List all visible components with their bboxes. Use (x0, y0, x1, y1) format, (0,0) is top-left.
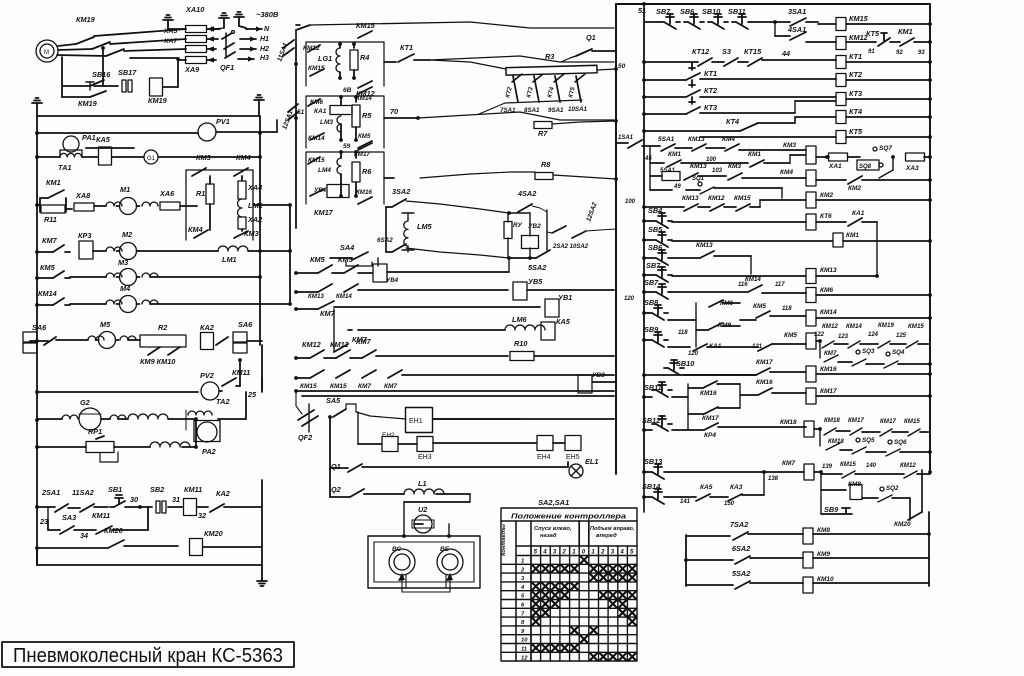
contact KM7 c (362, 350, 376, 358)
svg-text:КТ6: КТ6 (820, 213, 832, 220)
ground right bus (258, 100, 260, 104)
branch KM9 (695, 320, 697, 347)
svg-text:КМ4: КМ4 (236, 153, 251, 162)
rung 6SA2 KM9 (686, 559, 733, 561)
right bus lower (929, 470, 931, 474)
svg-text:КМ16: КМ16 (820, 366, 837, 373)
motor M2 (93, 250, 106, 252)
svg-text:125: 125 (896, 333, 907, 339)
svg-text:SВ7: SВ7 (646, 261, 661, 270)
contact KA2 r (197, 506, 208, 508)
svg-text:КМ3: КМ3 (196, 153, 211, 162)
wire rung1 (752, 21, 775, 23)
svg-text:8SА1: 8SА1 (524, 107, 540, 114)
svg-text:SQ2: SQ2 (886, 485, 899, 492)
svg-text:QF1: QF1 (220, 63, 234, 72)
contact KM16b (758, 388, 772, 395)
svg-text:РА1: РА1 (82, 133, 96, 142)
wire u2 down (403, 502, 405, 536)
rung M2 (35, 250, 39, 254)
svg-text:4: 4 (619, 550, 624, 556)
voltmeter PV1 (198, 123, 216, 141)
contact KM7 (48, 251, 53, 253)
circle BE (437, 549, 463, 575)
svg-text:LМ5: LМ5 (417, 222, 433, 231)
rung SB12 KP4 (644, 429, 652, 431)
contact KM4 bottom (194, 230, 208, 238)
coil KT6 (806, 214, 816, 230)
svg-text:КМ11: КМ11 (92, 511, 110, 520)
svg-text:32: 32 (198, 511, 206, 520)
switch SQ7 (848, 156, 860, 158)
svg-text:КМ3: КМ3 (244, 229, 259, 238)
svg-text:КМ15: КМ15 (904, 418, 920, 425)
pushbutton SB2 nc (156, 501, 160, 513)
coil KT1 (836, 56, 846, 69)
rung KM12 row (296, 357, 310, 359)
svg-text:SВ4: SВ4 (648, 206, 662, 215)
svg-text:SВ6: SВ6 (648, 243, 663, 252)
svg-text:ЕН3: ЕН3 (418, 454, 432, 461)
svg-text:КМ13: КМ13 (696, 242, 713, 249)
svg-text:Н1: Н1 (260, 36, 269, 43)
BC arrow (398, 573, 405, 581)
svg-text:КМ2: КМ2 (848, 185, 861, 192)
resistor R6 c3 (355, 152, 357, 158)
svg-text:КМ18: КМ18 (780, 419, 797, 426)
rung PA1-KA5-G1 (35, 155, 39, 159)
svg-text:92: 92 (896, 50, 903, 56)
contact KM5 a (318, 265, 332, 273)
inductor LM3 c2 (337, 116, 341, 132)
contacts KM9 KM10 under R2 (148, 347, 160, 355)
svg-text:SQ6: SQ6 (894, 439, 907, 446)
contact KM15 c1 (310, 69, 324, 76)
svg-text:SВ5: SВ5 (648, 225, 663, 234)
top distribution wire (310, 22, 614, 28)
svg-text:Положение контроллера: Положение контроллера (511, 512, 626, 521)
resistor R5 c2 (355, 96, 357, 102)
bus 290 (289, 205, 291, 304)
wire sa4 to cluster (377, 258, 379, 266)
svg-text:M: M (44, 50, 49, 56)
svg-text:Q1: Q1 (586, 33, 596, 42)
rung G2 (35, 418, 39, 422)
svg-text:PV2: PV2 (200, 371, 214, 380)
wire PV2 right riser (236, 385, 240, 387)
contact 4SA1 (774, 22, 776, 36)
rung4 KT2 contact (644, 96, 686, 98)
wire to YB5 (358, 289, 508, 291)
contact 2SA1 (55, 504, 68, 512)
resistor R1 vertical (209, 176, 211, 184)
rung SB7b KM13coil (644, 274, 652, 276)
svg-text:5SА2: 5SА2 (528, 263, 546, 272)
svg-text:R2: R2 (158, 323, 167, 332)
svg-text:КМ13: КМ13 (308, 293, 324, 300)
svg-text:КМ1: КМ1 (846, 232, 859, 239)
svg-text:КМ20: КМ20 (894, 521, 911, 528)
svg-text:ХА4: ХА4 (247, 183, 262, 192)
svg-text:КМ16: КМ16 (356, 189, 372, 196)
svg-text:КТ12: КТ12 (692, 47, 709, 56)
contact KM20 r (908, 512, 922, 520)
transformer TA1 (60, 153, 82, 157)
wire c3 right (384, 177, 394, 179)
svg-text:R10: R10 (514, 339, 527, 348)
svg-text:SQ3: SQ3 (862, 348, 875, 355)
svg-text:45: 45 (644, 156, 652, 162)
wire TA2 right (218, 418, 246, 420)
svg-text:КМ15: КМ15 (734, 195, 751, 202)
coil KM14 (806, 310, 816, 326)
rung6 KT4 contact (644, 130, 740, 132)
svg-text:SВ6: SВ6 (680, 7, 695, 16)
coil YB4 c3 (327, 185, 349, 198)
svg-text:ХА10: ХА10 (185, 5, 204, 14)
contact 3SA2 (392, 199, 406, 207)
coil YB3 (578, 375, 592, 393)
svg-text:КТ4: КТ4 (849, 107, 862, 116)
wire to TA2 (168, 418, 196, 420)
svg-text:КА5: КА5 (700, 484, 713, 491)
wire SA4 (330, 257, 352, 259)
coil KM4 (806, 170, 816, 186)
svg-text:11: 11 (521, 647, 527, 653)
svg-text:LМ6: LМ6 (512, 315, 528, 324)
svg-text:КМ11: КМ11 (184, 485, 202, 494)
rung M3 (35, 276, 39, 280)
rung1 SB7 SB6 SB10 SB11 (644, 21, 660, 23)
resistor R10 (510, 352, 534, 361)
branch KM6 up (695, 303, 697, 320)
svg-text:12: 12 (521, 655, 528, 661)
motor M4 (70, 303, 106, 305)
svg-text:SВ7: SВ7 (644, 278, 659, 287)
svg-text:4: 4 (542, 550, 547, 556)
svg-text:КМ13: КМ13 (688, 136, 705, 143)
svg-text:КМ17: КМ17 (314, 208, 334, 217)
RP1 tap (100, 452, 118, 462)
svg-text:КМ10: КМ10 (817, 576, 834, 583)
wire 70 to right (418, 112, 614, 120)
contact KM19 phase3 (106, 49, 124, 56)
svg-text:R4: R4 (360, 53, 369, 62)
arrow N (246, 28, 262, 30)
svg-text:SВ9: SВ9 (824, 505, 839, 514)
svg-text:SВ10: SВ10 (676, 359, 694, 368)
contact 11SA2 (80, 504, 94, 512)
wire top resistor to ground (168, 28, 186, 30)
vertical ka1 drop (876, 240, 878, 277)
ammeter PA1 (63, 136, 79, 152)
contact KT1 (384, 61, 396, 63)
svg-text:КТ15: КТ15 (744, 47, 762, 56)
svg-text:КМ15: КМ15 (300, 383, 317, 390)
svg-text:КА2: КА2 (200, 323, 214, 332)
pushbutton SB1 (94, 506, 108, 508)
ammeter PA2 (194, 421, 220, 442)
svg-text:91: 91 (868, 49, 875, 55)
svg-text:ХА8: ХА8 (75, 191, 91, 200)
resistor XA6 (142, 202, 158, 206)
right bus vertical of left ladder (259, 116, 261, 345)
rung M1 (35, 203, 39, 207)
svg-text:ЕН5: ЕН5 (566, 454, 580, 461)
svg-text:140: 140 (866, 463, 877, 469)
arrow H2 (240, 48, 256, 50)
svg-text:КТ3: КТ3 (704, 103, 717, 112)
contact Q1 top (576, 49, 592, 56)
svg-text:УВ5: УВ5 (528, 277, 543, 286)
svg-text:ХА2: ХА2 (247, 215, 262, 224)
svg-text:КМ5: КМ5 (310, 255, 326, 264)
svg-text:2: 2 (562, 550, 567, 556)
svg-text:G2: G2 (80, 398, 90, 407)
contact KM13 m (318, 284, 332, 292)
svg-text:КМ12: КМ12 (302, 340, 321, 349)
svg-text:назад: назад (540, 533, 557, 539)
svg-text:КА3: КА3 (730, 484, 743, 491)
resistor XA7 (186, 46, 207, 53)
rung KM13 KM14 (296, 291, 318, 293)
svg-text:М2: М2 (122, 230, 132, 239)
resistor XR1 (816, 156, 829, 158)
svg-text:2SА1: 2SА1 (41, 488, 60, 497)
svg-text:КМ5: КМ5 (784, 332, 797, 339)
rung SB11 (644, 396, 652, 398)
inductor LM1 vertical (238, 199, 243, 217)
svg-text:КМ12: КМ12 (303, 45, 320, 52)
rung SB5 KM1box (644, 239, 652, 241)
wire KM15 row right (402, 374, 614, 376)
contact KM5 (48, 277, 53, 279)
wire KM7 right (334, 306, 540, 308)
wire EH3 right (433, 442, 536, 444)
node 30 (138, 505, 142, 509)
dots u2 (402, 534, 406, 538)
wire 3-phase from motor (58, 44, 76, 46)
svg-text:PV1: PV1 (216, 117, 230, 126)
svg-text:КМ12: КМ12 (900, 462, 916, 469)
branch 49 SQ1 (649, 176, 651, 190)
inductor L1 (364, 493, 404, 495)
svg-text:КМ16: КМ16 (756, 379, 773, 386)
svg-text:R7: R7 (538, 129, 548, 138)
rung SB7c 116 KM14 117 (644, 291, 652, 293)
box SQ8 (857, 160, 879, 170)
coil KA5 mid (541, 322, 555, 340)
coil KT4 (836, 111, 846, 124)
svg-text:КА5: КА5 (96, 135, 111, 144)
svg-text:вперед: вперед (596, 533, 617, 539)
svg-text:9SА1: 9SА1 (548, 107, 564, 114)
motor M (main generator drive) (36, 40, 58, 62)
svg-text:31: 31 (172, 495, 180, 504)
svg-text:50: 50 (618, 63, 626, 70)
rung RP1 (35, 445, 39, 449)
svg-text:ЕL1: ЕL1 (585, 457, 598, 466)
svg-text:SВ12: SВ12 (642, 416, 660, 425)
svg-text:S3: S3 (722, 47, 731, 56)
svg-text:КМ4: КМ4 (780, 169, 793, 176)
title box (2, 642, 294, 667)
relay KA2 (201, 333, 214, 350)
wire YB4 right (387, 271, 509, 273)
coil KM9b (803, 552, 813, 568)
svg-text:М1: М1 (120, 185, 130, 194)
svg-text:КТ5: КТ5 (866, 29, 880, 38)
coil YB1 (545, 299, 559, 317)
contact 2SA2 10SA2 (552, 226, 566, 233)
svg-text:КМ17: КМ17 (848, 417, 864, 424)
resistor R3 (506, 65, 597, 75)
rung SB10 KM17 KM16coil (644, 374, 664, 376)
generator G2 (62, 415, 78, 419)
voltmeter PV2 (201, 382, 219, 400)
ground left bus (36, 103, 38, 107)
svg-text:R1: R1 (196, 189, 205, 198)
wire c2 right 70 (384, 117, 418, 119)
slanted contacts KT2-KT5 group (513, 76, 518, 102)
svg-text:Q1: Q1 (331, 462, 341, 471)
inductor RP1 right (114, 446, 150, 448)
contact KM20 (108, 540, 124, 548)
svg-text:93: 93 (918, 50, 925, 56)
svg-text:КМ1: КМ1 (748, 151, 761, 158)
node M1 right (258, 203, 262, 207)
svg-text:6SА2: 6SА2 (377, 237, 393, 244)
rung KM13 KM12 KM15 (644, 206, 684, 208)
rung LM6 KA5 (348, 329, 352, 331)
wire R8 (420, 172, 535, 178)
subchain KM7 SQ3 SQ4 (819, 341, 821, 358)
cluster1 frame (306, 42, 384, 86)
svg-text:КМ11: КМ11 (232, 368, 250, 377)
svg-text:Спуск влево,: Спуск влево, (534, 526, 572, 532)
rung M4 (35, 303, 39, 307)
coil YB5 (513, 282, 527, 300)
motor M3 (70, 276, 106, 278)
svg-text:КТ1: КТ1 (400, 43, 413, 52)
svg-text:34: 34 (80, 531, 88, 540)
svg-text:М3: М3 (118, 258, 128, 267)
svg-text:10SА1: 10SА1 (568, 106, 587, 113)
svg-text:R8: R8 (541, 160, 551, 169)
svg-text:КМ5: КМ5 (753, 303, 766, 310)
svg-text:59: 59 (343, 143, 351, 150)
svg-text:120: 120 (688, 351, 699, 357)
table data rows (501, 563, 637, 565)
arrow H3 (238, 58, 254, 60)
bottom rungs 7SA2 KM8 (685, 535, 687, 586)
svg-text:КА1: КА1 (314, 108, 327, 115)
relay KA5 box (82, 156, 98, 158)
wire Q1 right (362, 466, 568, 468)
node c1 (338, 42, 342, 46)
svg-text:КА1: КА1 (852, 210, 865, 217)
svg-text:ХА9: ХА9 (184, 65, 200, 74)
right bus lower part (261, 345, 263, 390)
resistor XA3 (906, 153, 925, 161)
cluster2 frame (306, 96, 384, 148)
svg-text:Н3: Н3 (260, 55, 269, 62)
svg-text:RР1: RР1 (88, 427, 102, 436)
coil KM2 (806, 192, 816, 208)
svg-text:7SА2: 7SА2 (730, 520, 748, 529)
inner bus 51 (643, 14, 645, 300)
rung7 feed 1SA1 (616, 142, 628, 144)
branch KM17 drop (687, 397, 689, 430)
EH3 heater (398, 443, 417, 445)
svg-text:ВС: ВС (392, 546, 402, 553)
svg-text:L1: L1 (418, 479, 427, 488)
svg-text:~380В: ~380В (256, 10, 279, 19)
left bus vertical (36, 116, 38, 565)
contact KM4 top (234, 168, 248, 176)
svg-text:44: 44 (781, 49, 790, 58)
svg-text:ВЕ: ВЕ (440, 546, 450, 553)
svg-text:КМ7: КМ7 (824, 350, 837, 357)
contact KM16 bot c3 (358, 197, 372, 204)
resistor R7 (534, 122, 552, 129)
main control bus upper (37, 115, 260, 117)
svg-text:КМ17: КМ17 (820, 388, 837, 395)
rung SB13 KM7coil (644, 471, 648, 473)
svg-text:30: 30 (130, 495, 138, 504)
resistor R11 (41, 205, 65, 213)
inductor after G2 (101, 418, 110, 420)
contact KM5 118 (756, 311, 770, 318)
wire 6SA2 bottom (406, 248, 509, 258)
lamp EL1 (569, 464, 583, 478)
pushbutton SB17 (104, 85, 118, 87)
svg-text:КМ9 КМ10: КМ9 КМ10 (140, 357, 175, 366)
contact KM5 bot c2 (358, 141, 372, 148)
branch SA3 (47, 507, 49, 520)
branch 5SA1b KM13 103 KM3 (649, 163, 651, 176)
svg-text:6SА2: 6SА2 (732, 544, 750, 553)
coil KM3 (806, 146, 816, 164)
circle BC (389, 549, 415, 575)
box KA1 c2 (330, 106, 352, 115)
svg-text:Контакты: Контакты (501, 524, 507, 556)
coil KM20 (190, 539, 203, 556)
svg-text:11SА2: 11SА2 (72, 488, 94, 497)
svg-text:КМ20: КМ20 (204, 529, 223, 538)
coil KM13 (806, 269, 816, 284)
contact KM7 e (388, 370, 402, 378)
svg-text:КМ7: КМ7 (782, 460, 795, 467)
U2 outer box (368, 536, 480, 588)
svg-text:КМ14: КМ14 (356, 95, 372, 102)
rung KM5 KM5 YB4 (296, 272, 318, 274)
svg-text:ЕН4: ЕН4 (537, 454, 551, 461)
svg-text:120: 120 (624, 296, 635, 302)
svg-text:КМ16: КМ16 (700, 390, 717, 397)
feed from SB13 bus to bottom (643, 472, 645, 512)
svg-text:4SА2: 4SА2 (517, 189, 536, 198)
switch SA6 right (216, 337, 228, 345)
svg-text:100: 100 (625, 199, 636, 205)
EH4 heater (537, 436, 553, 451)
svg-text:SQ1: SQ1 (692, 176, 705, 182)
svg-text:КМ17: КМ17 (354, 151, 370, 158)
svg-text:49: 49 (673, 184, 681, 190)
svg-text:КМ13: КМ13 (820, 267, 837, 274)
svg-text:КР3: КР3 (78, 231, 91, 240)
svg-text:КМ1: КМ1 (668, 151, 681, 158)
